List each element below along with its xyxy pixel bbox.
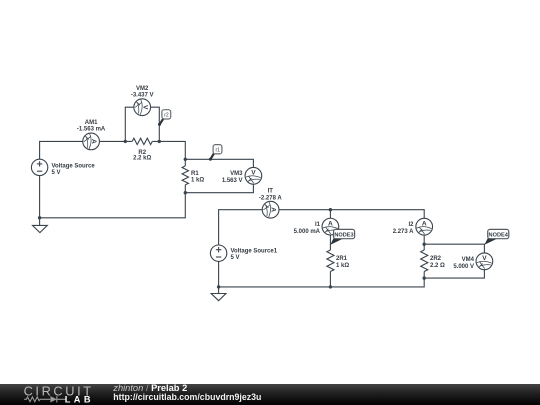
svg-text:2R1: 2R1 <box>336 256 348 262</box>
resistor 2R2 <box>421 250 428 272</box>
wire: VM3 bottom to node <box>185 184 253 193</box>
footer text <box>113 383 187 393</box>
wire: VM2 right loop <box>151 107 160 141</box>
voltmeter VM2 <box>134 99 151 116</box>
flag NODE4 <box>484 229 508 244</box>
wire: R1 bottom to ground rail <box>40 176 186 218</box>
node: R1 bottom <box>184 191 187 194</box>
wire: 2R1 bottom to bottom rail <box>329 272 331 287</box>
flag NODE3 <box>330 229 354 245</box>
svg-text:2R2: 2R2 <box>430 256 442 262</box>
svg-text:AM1: AM1 <box>85 120 98 126</box>
ammeter AM1 <box>83 133 100 150</box>
wire: VM2 left loop <box>125 107 134 141</box>
svg-text:5.000 V: 5.000 V <box>453 264 474 270</box>
svg-text:1.563 V: 1.563 V <box>222 178 243 184</box>
footer bar <box>0 384 540 405</box>
wire: I1 branch top <box>329 210 331 219</box>
node: right ground junction <box>217 285 220 288</box>
wire: VS1 top to IT <box>219 210 263 245</box>
svg-text:VM2: VM2 <box>136 86 149 92</box>
svg-text:1 kΩ: 1 kΩ <box>191 177 204 183</box>
voltage source Voltage Source (V1) <box>31 159 47 175</box>
wire: I2 bottom to NODE4 junction <box>423 235 425 250</box>
svg-text:I2: I2 <box>408 222 414 228</box>
svg-text:-2.278 A: -2.278 A <box>259 195 282 201</box>
wire: I1 bottom to 2R1 <box>329 235 331 250</box>
ammeter I2 <box>416 218 433 235</box>
voltmeter VM4 <box>476 253 493 270</box>
svg-text:NODE3: NODE3 <box>334 232 353 238</box>
wire: AM1 to R2 left node <box>99 140 132 142</box>
svg-text:Voltage Source1: Voltage Source1 <box>231 248 278 254</box>
wire: VM4 bottom to 2R2 bottom junction <box>424 270 484 278</box>
svg-text:IT: IT <box>268 188 274 194</box>
ground GND1 <box>33 218 48 233</box>
voltage source Voltage Source1 (V2) <box>210 245 226 261</box>
svg-text:5 V: 5 V <box>52 170 61 176</box>
node: 2R1 bottom <box>329 285 332 288</box>
flag r2 <box>158 110 171 126</box>
resistor 2R1 <box>327 250 334 272</box>
svg-text:1 kΩ: 1 kΩ <box>336 263 349 269</box>
ammeter IT <box>262 201 279 218</box>
svg-text:Voltage Source: Voltage Source <box>52 163 96 169</box>
wire: node to VM3 top <box>185 159 253 167</box>
node: R1 top <box>184 158 187 161</box>
svg-text:-3.437 V: -3.437 V <box>131 93 154 99</box>
node: R2 left / VM2 left <box>124 140 127 143</box>
ground GND2 <box>211 287 226 301</box>
voltmeter VM3 <box>245 167 262 184</box>
svg-text:R1: R1 <box>191 171 199 177</box>
svg-text:2.273 A: 2.273 A <box>393 229 414 235</box>
svg-text:-1.563 mA: -1.563 mA <box>77 126 106 132</box>
resistor R2 <box>132 138 152 144</box>
svg-text:VM4: VM4 <box>462 257 475 263</box>
node: left ground junction <box>38 216 41 219</box>
node: 2R2 bottom junction <box>423 276 426 279</box>
wire: 2R2 bottom to bottom rail and rail to VS1 <box>219 261 425 287</box>
resistor R1 <box>182 166 188 185</box>
svg-text:r1: r1 <box>215 148 220 154</box>
node: R2 right / VM2 right <box>158 140 161 143</box>
svg-text:VM3: VM3 <box>230 171 243 177</box>
wire: R2 right node to right corner and down <box>152 141 185 166</box>
svg-text:LAB: LAB <box>65 395 94 405</box>
svg-text:5 V: 5 V <box>231 255 240 261</box>
CircuitLab logo <box>0 384 110 405</box>
node: I1 top <box>329 208 332 211</box>
svg-text:2.2 kΩ: 2.2 kΩ <box>133 156 151 162</box>
ammeter I1 <box>322 218 339 235</box>
wire: left top rail from source to AM1 <box>40 141 83 159</box>
wire: NODE4 junction to VM4 top <box>424 244 484 253</box>
svg-text:2.2 Ω: 2.2 Ω <box>430 263 445 269</box>
svg-text:r2: r2 <box>164 113 169 119</box>
wire: IT to I2 corner <box>279 210 424 219</box>
svg-text:I1: I1 <box>315 222 321 228</box>
svg-text:NODE4: NODE4 <box>489 232 509 238</box>
node: NODE4 junction top <box>423 243 426 246</box>
flag r1 <box>209 145 222 161</box>
svg-text:5.000 mA: 5.000 mA <box>294 229 321 235</box>
